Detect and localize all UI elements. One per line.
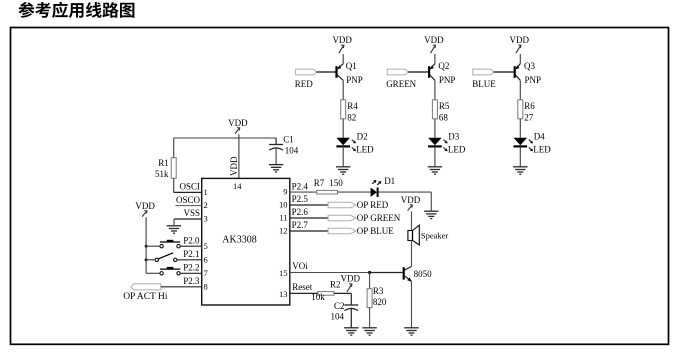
svg-text:1: 1 (204, 187, 208, 197)
connector BLUE input (472, 69, 496, 89)
wire R2 to VDD/C2 node (334, 292, 351, 294)
svg-text:R3: R3 (373, 286, 384, 296)
ground (R3) (362, 328, 376, 335)
svg-text:R6: R6 (524, 101, 535, 111)
svg-text:BLUE: BLUE (472, 79, 496, 89)
svg-text:LED: LED (356, 145, 374, 155)
connector OP GREEN (328, 213, 401, 223)
svg-text:OSCI: OSCI (179, 182, 200, 192)
ground (D4 cathode) (513, 167, 527, 174)
svg-text:OP RED: OP RED (357, 200, 389, 210)
svg-text:9: 9 (283, 187, 287, 197)
pin 1 OSCI (174, 182, 208, 197)
capacitor C2 104 (331, 293, 359, 321)
svg-text:13: 13 (279, 289, 288, 299)
svg-text:104: 104 (285, 146, 299, 156)
svg-text:104: 104 (331, 311, 345, 321)
switch S2 (P2.1 SPST) (155, 253, 177, 262)
wire VDD to speaker (411, 211, 413, 230)
svg-text:RED: RED (295, 79, 314, 89)
wire Q2 collector to R5 (434, 80, 436, 100)
svg-text:C2: C2 (334, 301, 345, 311)
wire R7 to D1 (338, 191, 371, 193)
svg-text:P2.6: P2.6 (292, 207, 309, 217)
svg-text:VDD: VDD (332, 35, 352, 45)
diode D1 LED (371, 176, 396, 197)
ground (Q4 emitter) (404, 328, 418, 335)
pin 6 P2.1 (183, 249, 208, 264)
pin 3 VSS (174, 208, 208, 223)
speaker LS1 (408, 225, 449, 245)
svg-text:OP ACT Hi: OP ACT Hi (123, 292, 168, 302)
svg-text:R5: R5 (439, 101, 450, 111)
transistor Q1 PNP (337, 61, 363, 85)
wire BLUE to Q3 base (494, 71, 514, 73)
svg-text:6: 6 (204, 254, 208, 264)
svg-text:Q3: Q3 (524, 61, 535, 71)
connector OP RED (328, 200, 389, 210)
wire R4 to D2 (342, 119, 344, 138)
pin 13 Reset (279, 282, 317, 299)
wire rail to R1 (173, 138, 175, 158)
svg-text:AK3308: AK3308 (222, 235, 256, 246)
wire feed to S3 (146, 272, 160, 274)
wire feed to S1 (146, 245, 160, 247)
LED D3 (428, 131, 466, 154)
wire VDD to Q3 emitter (519, 54, 521, 64)
ground (C2) (344, 328, 358, 335)
pin 14 label VDD (229, 156, 242, 191)
resistor R7 150 (314, 178, 344, 194)
svg-text:8050: 8050 (414, 269, 433, 279)
svg-text:11: 11 (279, 213, 287, 223)
svg-text:D1: D1 (384, 176, 395, 186)
ground (C1) (269, 165, 283, 172)
svg-text:51k: 51k (155, 169, 169, 179)
svg-text:GREEN: GREEN (386, 79, 416, 89)
LED D2 (336, 131, 374, 154)
svg-text:7: 7 (204, 268, 208, 278)
wire VDD rail (174, 137, 276, 139)
svg-text:5: 5 (204, 241, 208, 251)
svg-text:R4: R4 (347, 101, 358, 111)
ground (VSS) (167, 226, 181, 233)
wire GREEN to Q2 base (408, 71, 428, 73)
wire D4 cathode to ground (519, 146, 521, 166)
svg-text:Reset: Reset (292, 282, 312, 292)
svg-text:PNP: PNP (525, 75, 542, 85)
wire S1 to pin 5 (180, 245, 202, 247)
svg-text:Q2: Q2 (438, 61, 449, 71)
wire VDD to Q1 emitter (342, 54, 344, 64)
wire D1 cathode right (379, 191, 432, 193)
svg-text:15: 15 (279, 268, 288, 278)
resistor R5 68 (432, 100, 450, 123)
transistor Q2 PNP (429, 61, 455, 85)
pin 2 OSCO (176, 195, 208, 210)
resistor R6 27 (518, 100, 536, 123)
wire VDD feed down switch bank (145, 217, 147, 273)
power VDD (speaker) (401, 195, 421, 211)
svg-text:P2.2: P2.2 (183, 263, 199, 273)
svg-text:OSCO: OSCO (176, 195, 201, 205)
svg-text:12: 12 (279, 226, 288, 236)
wire R3 tap (369, 273, 371, 289)
svg-text:10: 10 (279, 200, 288, 210)
svg-text:VDD: VDD (341, 274, 361, 284)
svg-text:P2.5: P2.5 (292, 194, 309, 204)
power VDD (Q1 emitter supply) (332, 35, 352, 53)
svg-text:R1: R1 (158, 158, 169, 168)
power VDD (reset RC) (341, 274, 361, 292)
wire R5 to D3 (434, 119, 436, 138)
connector OP ACT Hi (123, 284, 168, 303)
switch S3 (P2.2 pushbutton) (160, 267, 180, 275)
LED D4 (514, 131, 552, 154)
svg-text:68: 68 (439, 112, 449, 122)
connector RED input (295, 69, 317, 89)
wire S3 to pin 7 (180, 272, 202, 274)
svg-text:OP BLUE: OP BLUE (357, 226, 394, 236)
svg-text:Q1: Q1 (346, 61, 357, 71)
svg-text:10k: 10k (311, 292, 325, 302)
svg-text:VDD: VDD (135, 201, 155, 211)
pin 15 VOi (279, 261, 370, 278)
svg-text:150: 150 (329, 178, 343, 188)
connector GREEN input (386, 69, 416, 89)
wire R3 to ground (369, 308, 371, 328)
svg-text:Speaker: Speaker (421, 230, 449, 240)
wire S2 to pin 6 (177, 259, 202, 261)
power VDD (Q2 emitter supply) (424, 35, 444, 53)
transistor Q4 8050 NPN (404, 266, 432, 281)
svg-text:P2.0: P2.0 (183, 235, 200, 245)
svg-text:3: 3 (204, 214, 208, 224)
svg-text:8: 8 (204, 281, 208, 291)
wire R1 to OSCI (173, 178, 175, 192)
svg-text:P2.3: P2.3 (183, 276, 200, 286)
svg-text:VDD: VDD (510, 35, 530, 45)
ground (D3 cathode) (428, 167, 442, 174)
svg-text:VDD: VDD (424, 35, 444, 45)
svg-text:R2: R2 (330, 279, 341, 289)
wire C1 to ground (275, 147, 277, 165)
svg-text:P2.1: P2.1 (183, 249, 199, 259)
pin 5 P2.0 (183, 235, 208, 250)
pin 7 P2.2 (183, 263, 208, 279)
junction (VOi / R3) (368, 271, 371, 274)
wire C2 to ground (350, 308, 352, 328)
pin 11 P2.6 (279, 207, 328, 222)
wire feed to S2 (146, 259, 155, 261)
power VDD (switch bank) (135, 201, 155, 217)
op-amp U1 AK3308 body (202, 178, 290, 305)
resistor R4 82 (341, 100, 359, 123)
ground (D2 cathode) (336, 167, 350, 174)
svg-text:LED: LED (448, 145, 466, 155)
pin 10 P2.5 (279, 194, 328, 209)
svg-text:VDD: VDD (229, 156, 239, 176)
svg-text:R7: R7 (314, 178, 325, 188)
title text 参考应用线路图 (18, 2, 134, 18)
svg-text:D2: D2 (357, 131, 368, 141)
svg-text:VDD: VDD (401, 195, 421, 205)
capacitor C1 104 (269, 135, 299, 156)
wire speaker to Q4 collector (411, 241, 413, 267)
wire D3 cathode to ground (434, 146, 436, 166)
wire RED to Q1 base (317, 71, 336, 73)
svg-text:VDD: VDD (228, 118, 248, 128)
svg-text:P2.7: P2.7 (292, 220, 309, 230)
wire VDD to Q2 emitter (434, 54, 436, 64)
wire Q3 collector to R6 (519, 80, 521, 100)
power VDD (rail above U1) (228, 118, 248, 134)
svg-text:P2.4: P2.4 (292, 181, 309, 191)
junction (VDD feed / S1) (145, 245, 148, 248)
svg-text:2: 2 (204, 200, 208, 210)
wire D2 cathode to ground (342, 146, 344, 166)
svg-text:OP GREEN: OP GREEN (357, 213, 401, 223)
svg-text:VSS: VSS (183, 208, 200, 218)
svg-text:PNP: PNP (346, 75, 363, 85)
svg-text:82: 82 (347, 112, 356, 122)
pin 8 P2.3 (183, 276, 208, 291)
svg-text:14: 14 (233, 181, 242, 191)
junction (VDD feed / S2) (145, 258, 148, 261)
connector OP BLUE (328, 226, 394, 236)
power VDD (Q3 emitter supply) (510, 35, 530, 53)
wire VDD tap to U1 pin14 (238, 134, 240, 178)
resistor R2 10k (311, 279, 340, 302)
wire down to ground (D1) (430, 192, 432, 211)
ground (D1 return) (424, 211, 438, 218)
svg-text:27: 27 (524, 112, 534, 122)
pin 12 P2.7 (279, 220, 328, 235)
svg-text:LED: LED (533, 145, 551, 155)
wire VOi to Q4 base (370, 272, 403, 274)
svg-text:D3: D3 (448, 131, 459, 141)
wire OP ACT Hi to pin 8 (161, 286, 202, 288)
wire Q4 emitter to ground (411, 281, 413, 327)
wire R6 to D4 (519, 119, 521, 138)
resistor R1 51k (155, 158, 176, 179)
pin 9 P2.4 (283, 181, 317, 196)
svg-text:820: 820 (373, 297, 387, 307)
svg-text:C1: C1 (283, 135, 294, 145)
svg-text:PNP: PNP (439, 75, 456, 85)
switch S1 (P2.0 pushbutton) (160, 240, 180, 248)
transistor Q3 PNP (515, 61, 541, 85)
wire Q1 collector to R4 (342, 80, 344, 100)
resistor R3 820 (367, 286, 387, 308)
svg-text:D4: D4 (534, 131, 545, 141)
wire VSS to ground (173, 219, 175, 226)
svg-text:VOi: VOi (292, 261, 308, 271)
